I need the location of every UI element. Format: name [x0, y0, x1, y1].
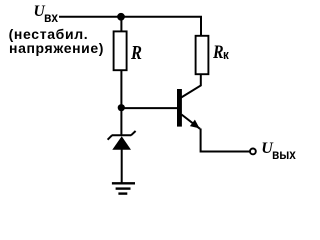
wire: dot to resistor R top	[120, 17, 122, 32]
output terminal circle	[250, 149, 256, 155]
node label U_vyx (output voltage)	[261, 140, 273, 158]
node label U_vx (input voltage)	[34, 3, 45, 21]
wire: top rail from U_вх to Rк corner	[59, 17, 201, 36]
transistor emitter with arrow	[182, 115, 201, 129]
label line 1: (нестабил.	[9, 26, 89, 42]
wire: node B down to zener	[120, 108, 122, 135]
ground	[112, 183, 135, 193]
wire: emitter to output terminal	[201, 129, 250, 152]
subscript к	[223, 48, 229, 62]
resistor Rк	[196, 36, 209, 74]
wire: zener to ground	[121, 150, 123, 184]
wire: base wire from node B to transistor	[121, 107, 177, 109]
subscript вых	[272, 147, 296, 162]
subscript вх	[44, 10, 58, 25]
value label Rк	[213, 43, 224, 64]
transistor VT base bar	[177, 89, 182, 127]
node B junction dot (R / zener / base)	[118, 104, 125, 111]
label line 2: напряжение)	[9, 40, 104, 56]
wire: Rк bottom to transistor collector	[181, 74, 201, 98]
resistor R	[114, 31, 127, 70]
node A junction dot (top rail / R)	[117, 13, 125, 21]
wire: resistor R bottom to node B	[120, 70, 122, 108]
value label R	[131, 42, 142, 65]
zener diode VD (stabilitron)	[108, 131, 136, 150]
